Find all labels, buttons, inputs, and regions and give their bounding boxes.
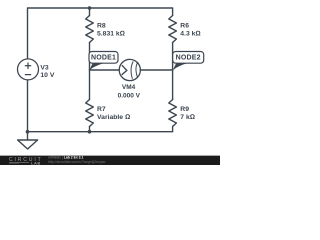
svg-text:5.831 kΩ: 5.831 kΩ [97,30,125,37]
footer bar [0,155,220,165]
svg-text:10 V: 10 V [40,72,54,79]
svg-text:R9: R9 [180,106,189,113]
junction dot top [88,6,92,10]
node NODE2 flag pointer [173,63,188,70]
wire R8 top stub [89,8,91,16]
resistor R9 [169,100,177,127]
svg-text:R7: R7 [97,106,106,113]
svg-text:V3: V3 [40,65,49,72]
svg-text:R6: R6 [180,22,189,29]
svg-text:http://circuitlab.com/c/7wrgn4: http://circuitlab.com/c/7wrgn4j2mojrw [48,160,106,164]
wire R6 to node B [172,43,174,71]
junction dot bottom left [26,130,30,134]
resistor R7 [86,100,94,127]
wire left rail bottom [28,80,173,132]
svg-text:R8: R8 [97,22,106,29]
svg-text:Variable Ω: Variable Ω [97,114,130,121]
wire R7 bottom stub [89,127,91,132]
svg-text:NODE1: NODE1 [91,55,116,62]
svg-text:4.3 kΩ: 4.3 kΩ [180,30,200,37]
svg-text:7 kΩ: 7 kΩ [180,114,195,121]
node NODE1 label box [89,52,118,64]
junction dot bottom mid [88,130,92,134]
wire node A to R7 [89,70,91,100]
wire node A to voltmeter [90,69,120,71]
resistor R6 [169,16,177,43]
wire voltmeter to node B [140,69,172,71]
wire node B to R9 [172,70,174,100]
svg-text:VM4: VM4 [122,84,136,91]
svg-text:NODE2: NODE2 [176,55,201,62]
node NODE2 label box [173,52,204,64]
svg-text:rothfeldz | Lab 2 Ex 3.1: rothfeldz | Lab 2 Ex 3.1 [48,156,83,160]
svg-text:0.000 V: 0.000 V [118,93,141,100]
wire R8 to node A [89,43,91,71]
node NODE1 flag pointer [89,63,104,70]
wire top rail [28,8,173,59]
resistor R8 [86,16,94,43]
wire ground stub [27,132,29,140]
ground [18,140,38,149]
logo CircuitLab [9,157,43,165]
voltage source V3 [18,59,39,80]
svg-text:LAB: LAB [31,160,41,165]
voltmeter VM4 [119,59,140,80]
